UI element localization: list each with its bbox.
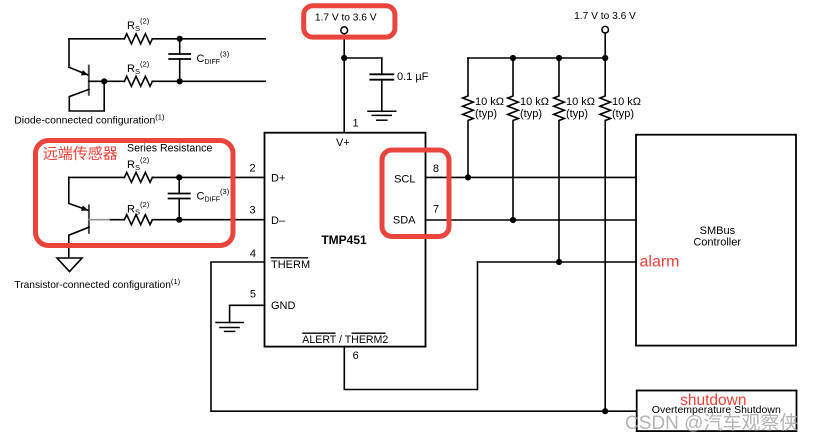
wire D- (transistor config) bbox=[109, 219, 265, 221]
wire pull-up rail bbox=[468, 57, 605, 59]
svg-text:V+: V+ bbox=[336, 137, 350, 149]
node junction top CDIFF1 bbox=[177, 36, 183, 42]
wire V+ to pin 1 bbox=[343, 34, 345, 133]
block Overtemperature Shutdown bbox=[637, 391, 797, 432]
overline THERM bbox=[271, 257, 309, 259]
wire D+ (transistor config) bbox=[69, 176, 265, 178]
svg-text:Series Resistance: Series Resistance bbox=[127, 143, 212, 155]
wire D- bottom (diode config) bbox=[104, 80, 265, 82]
transistor Q2 (transistor-connected) bbox=[69, 203, 109, 256]
annotation box SCL/SDA bbox=[382, 150, 449, 237]
wire THERM pin 4 to shutdown bbox=[211, 262, 637, 411]
svg-text:(typ): (typ) bbox=[475, 108, 497, 120]
svg-text:(typ): (typ) bbox=[520, 108, 542, 120]
svg-text:Diode-connected configuration(: Diode-connected configuration(1) bbox=[14, 113, 165, 127]
svg-text:SDA: SDA bbox=[393, 215, 416, 227]
wire emitter riser Q1 bbox=[68, 39, 70, 68]
node junction rail 3 bbox=[556, 55, 562, 61]
wire D+ top (diode config) bbox=[69, 38, 265, 40]
wire SDA line bbox=[426, 219, 637, 221]
resistor R4 10k bbox=[600, 58, 611, 411]
overline THERM2 bbox=[352, 332, 386, 334]
capacitor C1 0.1uF bbox=[370, 58, 393, 111]
node junction alarm pull-up bbox=[556, 259, 562, 265]
svg-text:10 kΩ: 10 kΩ bbox=[520, 96, 549, 108]
off-page arrow (collector) bbox=[57, 258, 82, 272]
svg-text:5: 5 bbox=[250, 289, 256, 301]
svg-text:ALERT / THERM2: ALERT / THERM2 bbox=[302, 334, 388, 346]
resistor R2 10k bbox=[508, 58, 519, 220]
wire emitter riser Q2 bbox=[68, 177, 70, 203]
ground (GND pin) bbox=[216, 323, 243, 332]
svg-text:GND: GND bbox=[271, 300, 296, 312]
svg-text:4: 4 bbox=[250, 248, 256, 260]
overline ALERT bbox=[302, 332, 335, 334]
svg-text:远端传感器: 远端传感器 bbox=[43, 145, 118, 162]
svg-text:Transistor-connected configura: Transistor-connected configuration(1) bbox=[14, 277, 180, 291]
node junction bottom CDIFF1 bbox=[177, 78, 183, 84]
svg-text:shutdown: shutdown bbox=[680, 392, 746, 409]
capacitor CDIFF1 bbox=[169, 39, 190, 82]
IC U1 TMP451 bbox=[265, 133, 426, 347]
svg-text:0.1 µF: 0.1 µF bbox=[397, 71, 429, 83]
svg-text:3: 3 bbox=[249, 205, 255, 217]
resistor RS4 bbox=[124, 215, 152, 225]
svg-text:TMP451: TMP451 bbox=[321, 233, 367, 247]
node junction Q1 base-collector bbox=[101, 78, 107, 84]
wire SCL line bbox=[426, 176, 637, 178]
resistor RS2 bbox=[124, 76, 152, 86]
wire alarm line bbox=[478, 261, 637, 263]
svg-text:1.7 V to 3.6 V: 1.7 V to 3.6 V bbox=[315, 13, 377, 24]
svg-text:SMBus: SMBus bbox=[700, 225, 736, 237]
ground (C1) bbox=[368, 111, 396, 120]
capacitor CDIFF2 bbox=[169, 177, 190, 219]
wire supply to rail bbox=[604, 33, 606, 58]
svg-text:1.7 V to 3.6 V: 1.7 V to 3.6 V bbox=[574, 11, 636, 22]
svg-text:THERM: THERM bbox=[271, 259, 310, 271]
supply terminal V+ right bbox=[602, 26, 609, 33]
svg-text:10 kΩ: 10 kΩ bbox=[612, 96, 641, 108]
svg-text:D–: D– bbox=[271, 215, 286, 227]
svg-text:1: 1 bbox=[353, 118, 359, 130]
svg-text:7: 7 bbox=[433, 204, 439, 216]
node junction SDA pull-up bbox=[510, 217, 516, 223]
svg-text:10 kΩ: 10 kΩ bbox=[566, 96, 595, 108]
node junction rail 4 bbox=[602, 55, 608, 61]
node junction V+ bbox=[341, 55, 347, 61]
resistor R1 10k bbox=[463, 58, 474, 177]
node junction SCL pull-up bbox=[465, 174, 471, 180]
svg-text:2: 2 bbox=[249, 163, 255, 175]
block SMBus Controller bbox=[636, 135, 796, 346]
svg-text:SCL: SCL bbox=[394, 174, 415, 186]
node junction rail 2 bbox=[510, 55, 516, 61]
svg-text:10 kΩ: 10 kΩ bbox=[475, 96, 504, 108]
svg-text:CSDN @汽车观察侠: CSDN @汽车观察侠 bbox=[625, 412, 798, 434]
node junction shutdown line bbox=[602, 408, 608, 414]
svg-text:6: 6 bbox=[353, 350, 359, 362]
node junction top CDIFF2 bbox=[176, 174, 182, 180]
annotation box supply bbox=[304, 6, 395, 37]
svg-text:alarm: alarm bbox=[640, 253, 680, 270]
annotation box remote sensor bbox=[36, 141, 234, 246]
svg-text:(typ): (typ) bbox=[612, 108, 634, 120]
resistor RS1 bbox=[124, 34, 152, 44]
supply terminal V+ left bbox=[341, 27, 348, 34]
svg-text:Controller: Controller bbox=[693, 237, 741, 249]
svg-text:8: 8 bbox=[433, 163, 439, 175]
resistor R3 10k bbox=[554, 58, 565, 262]
wire ALERT pin 6 to alarm bbox=[344, 262, 477, 390]
node junction bottom CDIFF2 bbox=[176, 217, 182, 223]
svg-text:D+: D+ bbox=[271, 173, 285, 185]
resistor RS3 bbox=[124, 172, 152, 182]
svg-text:(typ): (typ) bbox=[566, 108, 588, 120]
wire V+ branch to C1 bbox=[344, 57, 382, 59]
transistor Q1 (diode-connected) bbox=[69, 66, 104, 111]
wire GND pin 5 bbox=[230, 305, 265, 322]
